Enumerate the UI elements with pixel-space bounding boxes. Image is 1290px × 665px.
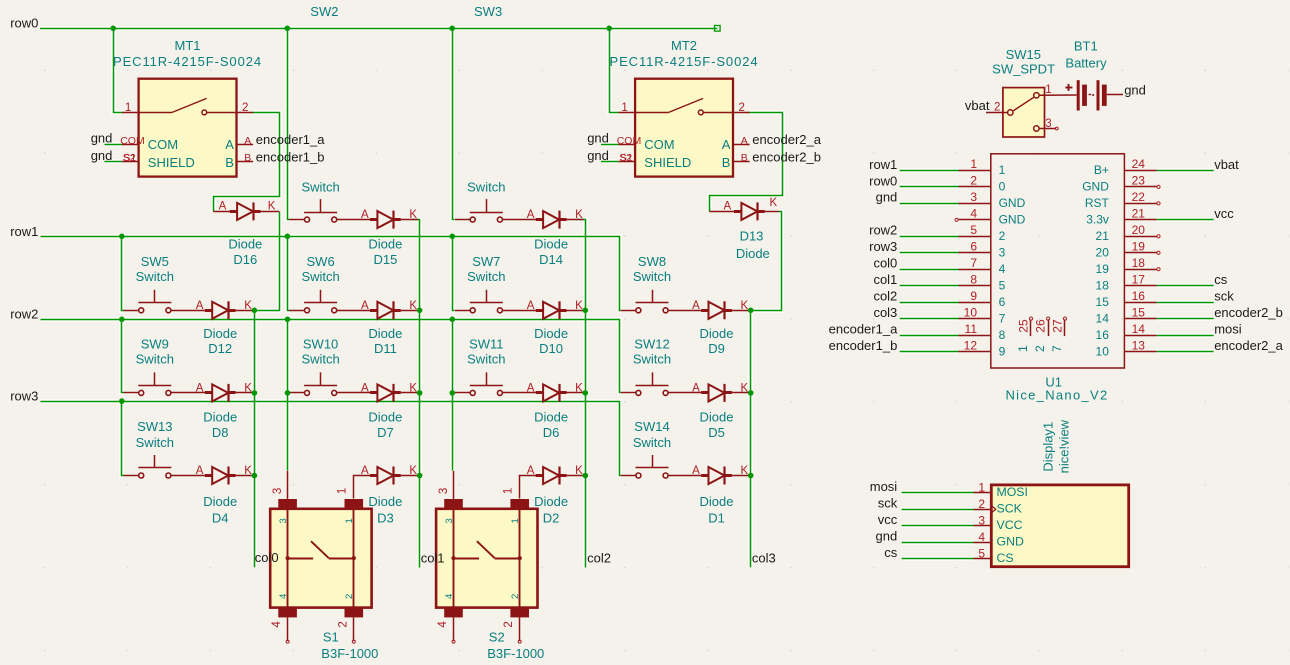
- wire SW11 to diode: [502, 392, 535, 394]
- label D11: [368, 326, 402, 356]
- U1 pin 18 no-connect: [1157, 268, 1160, 271]
- svg-text:Diode: Diode: [228, 236, 262, 251]
- S2 pin 4: [437, 617, 455, 643]
- label SW2: [310, 4, 338, 19]
- open wire end row0: [715, 26, 721, 32]
- svg-text:Diode: Diode: [700, 326, 734, 341]
- svg-text:SW6: SW6: [307, 254, 335, 269]
- junction row2 col1: [285, 317, 291, 323]
- label col1 (U1): [873, 272, 897, 287]
- svg-text:2: 2: [503, 621, 515, 627]
- wire U1 pin 5 net row2: [900, 236, 959, 238]
- Display1 pin 3: [974, 513, 1023, 532]
- svg-text:row3: row3: [10, 389, 38, 404]
- junction col1 rowB: [417, 390, 423, 396]
- svg-text:D12: D12: [208, 341, 232, 356]
- Display1 pin 5: [974, 546, 1014, 565]
- wire U1 pin 7 net col0: [900, 269, 959, 271]
- S2 internal rails: [454, 509, 520, 608]
- wire D16 K to col0: [255, 212, 280, 311]
- wire Display1 pin 5 net cs: [902, 558, 974, 560]
- svg-text:26: 26: [1034, 319, 1048, 333]
- S1 pad pin 3: [278, 499, 297, 509]
- switch SW10: [304, 372, 337, 395]
- svg-text:row1: row1: [869, 157, 897, 172]
- SW11 pin 1: [455, 392, 470, 394]
- S1 contacts: [286, 541, 356, 560]
- U1 pin 27: [1050, 317, 1067, 352]
- svg-text:3: 3: [970, 190, 977, 204]
- svg-text:COM: COM: [644, 137, 674, 152]
- switch SW13: [138, 455, 171, 478]
- junction col3 rowB: [748, 390, 754, 396]
- svg-text:5: 5: [999, 279, 1006, 293]
- svg-text:Switch: Switch: [136, 352, 174, 367]
- junction col3 rowC: [748, 473, 754, 479]
- wire row1 bus: [41, 237, 621, 311]
- svg-text:9: 9: [999, 344, 1006, 358]
- svg-text:K: K: [575, 209, 583, 221]
- svg-text:19: 19: [1096, 262, 1110, 276]
- junction row1 col1: [285, 234, 291, 240]
- wire SW8 to diode: [668, 310, 701, 312]
- svg-text:D10: D10: [539, 341, 563, 356]
- label encoder1_b (U1): [829, 338, 898, 353]
- SW14 pin 1: [621, 475, 636, 477]
- svg-text:D5: D5: [708, 425, 725, 440]
- svg-text:Diode: Diode: [368, 236, 402, 251]
- junction col2 rowB: [583, 390, 589, 396]
- wire D15 K stub: [401, 219, 418, 221]
- switch SW15 body: [1003, 88, 1045, 137]
- svg-text:A: A: [196, 300, 204, 312]
- top switch col2 pin 1: [455, 219, 470, 221]
- MT1 internal contact: [139, 98, 237, 114]
- diode D15: [370, 211, 401, 229]
- MT2 pin 1: [619, 102, 636, 114]
- svg-text:3.3v: 3.3v: [1086, 213, 1109, 227]
- svg-text:4: 4: [271, 621, 283, 628]
- U1 pin 21: [1086, 207, 1156, 227]
- svg-text:Switch: Switch: [633, 352, 671, 367]
- label U1: [1045, 375, 1062, 390]
- wire U1 pin 13 net encoder2_a: [1157, 351, 1214, 353]
- svg-text:MT1: MT1: [175, 38, 201, 53]
- wire U1 pin 8 net col1: [900, 285, 959, 287]
- label D15 K: [409, 209, 417, 221]
- svg-text:col1: col1: [873, 272, 897, 287]
- wire row0 to MT2 pin1: [610, 29, 619, 113]
- label D12 A: [196, 300, 204, 312]
- SW8 pin 1: [621, 310, 636, 312]
- svg-text:1: 1: [978, 480, 985, 494]
- svg-text:SHIELD: SHIELD: [644, 155, 691, 170]
- battery BT1 cells: [1077, 80, 1107, 110]
- wire Display1 pin 3 net vcc: [902, 525, 974, 527]
- wire SW13 to diode: [171, 475, 205, 477]
- wire SW14 to diode: [668, 475, 701, 477]
- wire U1 pin 2 net row0: [900, 186, 959, 188]
- svg-text:B3F-1000: B3F-1000: [321, 646, 378, 661]
- U1 pin 18: [1096, 256, 1157, 276]
- svg-text:encoder2_b: encoder2_b: [752, 150, 821, 165]
- label col3 (U1): [873, 305, 897, 320]
- switch (top row col2): [470, 199, 503, 222]
- svg-text:A: A: [527, 383, 535, 395]
- label S1 value: [321, 646, 378, 661]
- label D3: [368, 494, 402, 525]
- svg-text:5: 5: [978, 546, 985, 560]
- svg-text:3: 3: [278, 518, 289, 523]
- svg-text:B: B: [722, 155, 731, 170]
- svg-text:D14: D14: [539, 252, 563, 267]
- svg-text:Battery: Battery: [1065, 56, 1107, 71]
- svg-text:Switch: Switch: [633, 269, 671, 284]
- svg-text:A: A: [527, 209, 535, 221]
- label D3 K: [409, 465, 417, 477]
- wire Display1 pin 4 net gnd: [902, 542, 974, 544]
- wire gnd to MT1 shield: [105, 161, 123, 163]
- MT1 pin A: [225, 135, 253, 152]
- wire Display1 pin 1 net mosi: [902, 492, 974, 494]
- SW13 pin 1: [124, 475, 139, 477]
- wire row3 to SW13: [122, 402, 124, 476]
- display Display1 body: [991, 485, 1128, 567]
- svg-text:Diode: Diode: [736, 246, 770, 261]
- svg-text:D7: D7: [377, 425, 394, 440]
- svg-text:row3: row3: [869, 239, 897, 254]
- svg-text:B3F-1000: B3F-1000: [487, 646, 544, 661]
- S1 pin 3 stub: [272, 471, 288, 499]
- wire D13 K to col3: [751, 212, 782, 311]
- junction row1 col0: [119, 234, 125, 240]
- svg-text:A: A: [244, 135, 251, 147]
- label mosi (U1): [1214, 322, 1242, 337]
- svg-text:2: 2: [738, 102, 744, 114]
- wire row0 to MT1 pin1: [114, 29, 123, 113]
- svg-text:row0: row0: [10, 16, 38, 31]
- svg-text:4: 4: [444, 594, 455, 599]
- label D7: [368, 410, 402, 441]
- label D16 A: [219, 201, 227, 213]
- wire D9 K stub: [732, 310, 749, 312]
- label D10 A: [527, 300, 535, 312]
- svg-text:A: A: [361, 300, 369, 312]
- svg-text:1: 1: [503, 488, 515, 494]
- svg-text:K: K: [268, 200, 276, 212]
- junction col2 rowA: [583, 308, 589, 314]
- wire switch to diode (top col2): [502, 219, 535, 221]
- label row2 (U1): [869, 223, 897, 238]
- label D4 A: [196, 465, 204, 477]
- MT1 pin B: [225, 152, 253, 170]
- svg-text:1: 1: [621, 102, 627, 114]
- svg-text:B: B: [244, 152, 251, 164]
- diode D10: [536, 301, 567, 319]
- svg-text:Switch: Switch: [467, 269, 505, 284]
- label D14 K: [575, 209, 583, 221]
- svg-text:Switch: Switch: [467, 352, 505, 367]
- label D2 A: [527, 465, 535, 477]
- diode D7: [370, 384, 401, 402]
- S1 pin 1 wire: [337, 476, 371, 499]
- svg-text:SW9: SW9: [141, 337, 169, 352]
- label col1: [421, 550, 445, 565]
- wire SW9 to diode: [171, 392, 205, 394]
- switch SW6: [304, 290, 337, 313]
- svg-text:1: 1: [510, 518, 521, 523]
- label gnd (MT2 shield): [587, 148, 609, 163]
- svg-text:K: K: [409, 209, 417, 221]
- label col3: [752, 550, 776, 565]
- svg-text:A: A: [225, 137, 234, 152]
- svg-text:A: A: [527, 300, 535, 312]
- MT2 pin COM: [617, 135, 675, 152]
- switch SW12: [636, 372, 669, 395]
- label mosi (Display1): [870, 479, 898, 494]
- wire col0 vertical: [254, 310, 256, 567]
- SW7 pin 1: [455, 310, 470, 312]
- svg-text:col0: col0: [873, 256, 897, 271]
- svg-text:4: 4: [999, 262, 1006, 276]
- label D2: [534, 494, 568, 525]
- svg-text:A: A: [724, 201, 732, 213]
- SW9 pin 1: [124, 392, 139, 394]
- S2 pin 2: [503, 617, 521, 643]
- svg-text:9: 9: [970, 289, 977, 303]
- wire SW11 branch: [452, 392, 455, 394]
- junction row2 col0: [119, 317, 125, 323]
- wire D2 K stub: [567, 475, 584, 477]
- svg-text:Switch: Switch: [467, 180, 505, 195]
- svg-text:Diode: Diode: [534, 326, 568, 341]
- label D8 K: [244, 383, 252, 395]
- label S2 value: [487, 646, 544, 661]
- label D11 K: [409, 300, 417, 312]
- svg-text:A: A: [692, 465, 700, 477]
- diode D2: [536, 467, 567, 485]
- label D1: [700, 494, 734, 525]
- svg-text:2: 2: [510, 594, 521, 599]
- U1 pin 22 no-connect: [1157, 202, 1160, 205]
- svg-text:gnd: gnd: [587, 131, 609, 146]
- U1 pin 10: [959, 305, 1006, 325]
- svg-text:1: 1: [970, 157, 977, 171]
- svg-text:MOSI: MOSI: [997, 485, 1028, 499]
- svg-text:encoder1_b: encoder1_b: [829, 338, 898, 353]
- svg-text:encoder1_a: encoder1_a: [256, 132, 325, 147]
- svg-text:A: A: [722, 137, 731, 152]
- label SW12: [633, 337, 671, 367]
- SW6 pin 1: [289, 310, 304, 312]
- svg-text:nice!view: nice!view: [1057, 419, 1072, 473]
- label sck (Display1): [878, 496, 898, 511]
- junction row0/SW3 column: [449, 26, 455, 32]
- svg-text:col2: col2: [587, 550, 611, 565]
- svg-text:14: 14: [1096, 311, 1110, 325]
- svg-text:K: K: [741, 465, 749, 477]
- wire U1 pin 24 net vbat: [1157, 170, 1214, 172]
- wire D10 K stub: [567, 310, 584, 312]
- U1 pin 16: [1096, 289, 1157, 309]
- svg-text:Diode: Diode: [700, 494, 734, 509]
- wire SW12 to diode: [668, 392, 701, 394]
- svg-text:vcc: vcc: [878, 512, 898, 527]
- U1 pin 17: [1096, 273, 1157, 293]
- label row2: [10, 306, 38, 321]
- svg-text:D2: D2: [543, 511, 560, 526]
- label U1 value Nice_Nano_V2: [1005, 388, 1108, 403]
- svg-text:Switch: Switch: [136, 269, 174, 284]
- Display1 pin 2: [974, 497, 1023, 516]
- svg-text:8: 8: [999, 328, 1006, 342]
- switch (top row col1): [304, 199, 337, 222]
- diode D12: [205, 301, 236, 319]
- svg-text:18: 18: [1132, 256, 1146, 270]
- switch SW8: [636, 290, 669, 313]
- wire row2 to SW11 and S2 pin3: [452, 320, 454, 471]
- svg-text:16: 16: [1132, 289, 1146, 303]
- svg-text:Diode: Diode: [534, 410, 568, 425]
- junction row1 col2: [450, 234, 456, 240]
- label MT1: [175, 38, 201, 53]
- wire MT1 pin2 to diode: [214, 113, 280, 212]
- diode D16: [213, 202, 279, 220]
- svg-text:K: K: [575, 465, 583, 477]
- wire row2 bus: [41, 320, 621, 393]
- SW15 contacts: [1008, 93, 1040, 132]
- svg-text:18: 18: [1096, 279, 1110, 293]
- svg-text:SW_SPDT: SW_SPDT: [992, 62, 1055, 77]
- svg-text:D4: D4: [212, 511, 229, 526]
- U1 pin 2: [959, 174, 1006, 194]
- label D13 K: [770, 197, 778, 209]
- diode D5: [701, 384, 732, 402]
- wire D1 K stub: [732, 475, 749, 477]
- label D7 A: [361, 383, 369, 395]
- svg-text:1: 1: [344, 518, 355, 523]
- svg-text:2: 2: [1033, 345, 1047, 352]
- svg-text:27: 27: [1051, 319, 1065, 333]
- svg-text:6: 6: [970, 240, 977, 254]
- wire U1 pin 21 net vcc: [1157, 219, 1214, 221]
- svg-text:gnd: gnd: [876, 190, 898, 205]
- wire row0 bus: [40, 28, 717, 30]
- svg-text:col3: col3: [873, 305, 897, 320]
- label D16: [228, 236, 262, 267]
- svg-text:Diode: Diode: [534, 494, 568, 509]
- label D13 A: [724, 201, 732, 213]
- label sck (U1): [1214, 289, 1234, 304]
- svg-text:Diode: Diode: [368, 326, 402, 341]
- wire col1 vertical: [412, 220, 420, 568]
- svg-text:gnd: gnd: [91, 131, 113, 146]
- U1 pin 23 no-connect: [1157, 185, 1160, 188]
- svg-text:COM: COM: [120, 135, 145, 147]
- mcu U1 body: [991, 154, 1125, 368]
- diode D13: [709, 202, 778, 220]
- wire col3 vertical: [750, 310, 752, 567]
- svg-text:3: 3: [444, 518, 455, 523]
- switch SW9: [138, 372, 171, 395]
- U1 pin 9: [959, 289, 1006, 309]
- label D1 K: [741, 465, 749, 477]
- svg-text:4: 4: [437, 621, 449, 628]
- label D1 A: [692, 465, 700, 477]
- MT2 internal contact: [635, 98, 733, 114]
- svg-text:Diode: Diode: [203, 326, 237, 341]
- svg-text:K: K: [409, 383, 417, 395]
- svg-text:15: 15: [1132, 305, 1146, 319]
- svg-text:D6: D6: [543, 425, 560, 440]
- junction col3 rowA: [748, 308, 754, 314]
- wire switch to diode (top col1): [337, 219, 370, 221]
- svg-text:Switch: Switch: [136, 435, 174, 450]
- svg-text:Diode: Diode: [368, 410, 402, 425]
- svg-text:K: K: [575, 383, 583, 395]
- S1 pad pin 2: [345, 608, 364, 618]
- wire gnd to MT2 shield: [601, 161, 619, 163]
- U1 pin 4: [959, 207, 1026, 227]
- MT1 pins S1 S2: [122, 152, 195, 170]
- wire U1 pin 17 net cs: [1157, 285, 1214, 287]
- svg-text:encoder2_a: encoder2_a: [1214, 338, 1283, 353]
- U1 pin 7: [959, 256, 1006, 276]
- svg-text:B: B: [225, 155, 234, 170]
- wire SW10 to diode: [337, 392, 370, 394]
- rotary encoder MT2 body: [635, 79, 733, 177]
- svg-text:SHIELD: SHIELD: [148, 155, 195, 170]
- svg-text:10: 10: [1096, 344, 1110, 358]
- svg-text:1: 1: [1016, 345, 1030, 352]
- wire gnd to MT1 COM: [105, 144, 123, 146]
- label gnd (U1): [876, 190, 898, 205]
- wire D5 K stub: [732, 392, 749, 394]
- label D10 K: [575, 300, 583, 312]
- svg-text:col3: col3: [752, 550, 776, 565]
- switch SW11: [470, 372, 503, 395]
- U1 pin 20: [1096, 223, 1157, 243]
- diode D3: [370, 467, 401, 485]
- U1 pin 20 no-connect: [1157, 235, 1160, 238]
- label D11 A: [361, 300, 369, 312]
- svg-text:19: 19: [1132, 240, 1146, 254]
- Display1 pin 1: [974, 480, 1028, 499]
- S2 pad pin 4: [444, 608, 463, 618]
- label SW9: [136, 337, 174, 367]
- junction row0/MT1: [110, 26, 116, 32]
- label Display1: [1041, 422, 1056, 472]
- wire row1 to SW5: [122, 237, 124, 311]
- svg-text:gnd: gnd: [875, 529, 897, 544]
- wire D7 K stub: [401, 392, 418, 394]
- label col2: [587, 550, 611, 565]
- svg-text:vcc: vcc: [1214, 206, 1234, 221]
- svg-text:14: 14: [1132, 322, 1146, 336]
- svg-text:A: A: [741, 135, 748, 147]
- label D9: [700, 326, 734, 356]
- U1 pin 14: [1096, 322, 1157, 342]
- svg-text:K: K: [741, 383, 749, 395]
- wire SW10 branch: [288, 392, 290, 394]
- junction col0 rowC: [252, 473, 258, 479]
- wire halo layer: [40, 29, 1214, 568]
- switch SW5: [138, 290, 171, 313]
- wire D4 K stub: [236, 475, 253, 477]
- S2 contacts: [451, 541, 521, 560]
- wire row1 to SW7: [453, 237, 455, 311]
- svg-text:mosi: mosi: [1214, 322, 1242, 337]
